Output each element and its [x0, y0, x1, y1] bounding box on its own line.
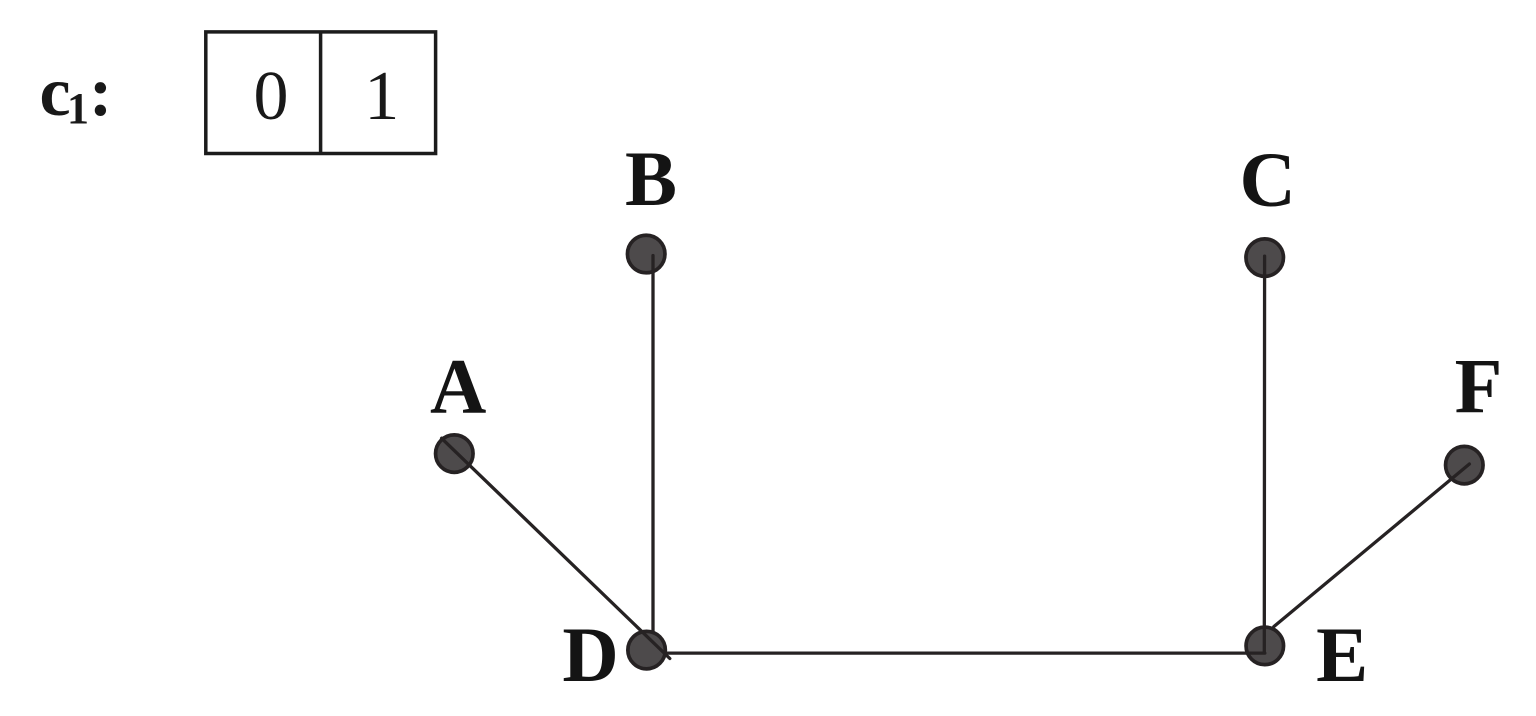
svg-text::: : [89, 54, 112, 131]
svg-text:E: E [1316, 611, 1368, 698]
svg-text:c: c [40, 54, 71, 131]
svg-text:1: 1 [67, 84, 89, 133]
svg-text:1: 1 [364, 58, 399, 135]
svg-text:B: B [625, 135, 677, 222]
svg-text:A: A [430, 343, 486, 430]
svg-text:D: D [562, 611, 618, 698]
svg-text:0: 0 [254, 58, 289, 135]
svg-text:C: C [1240, 136, 1296, 223]
svg-text:F: F [1455, 343, 1503, 430]
